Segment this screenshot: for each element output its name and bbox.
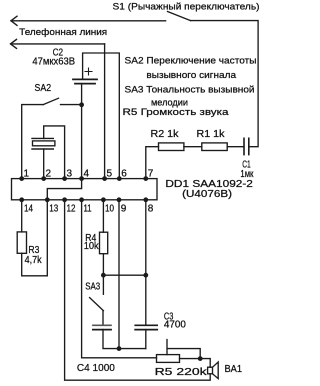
svg-text:6: 6 bbox=[121, 168, 127, 179]
svg-text:4700: 4700 bbox=[164, 319, 186, 330]
wire pin 9 rail down bbox=[118, 200, 120, 349]
svg-text:10k: 10k bbox=[84, 241, 100, 252]
wire SA2 left to pin 1 bbox=[22, 105, 44, 179]
switch S1 blade bbox=[168, 12, 191, 21]
wire R3 bottom to pin 13 bbox=[22, 253, 48, 275]
arrow line B bbox=[11, 39, 17, 48]
crystal ZQ1 plates bbox=[32, 138, 53, 149]
svg-text:9: 9 bbox=[121, 203, 127, 214]
svg-text:4,7k: 4,7k bbox=[25, 255, 43, 266]
wire pin 8 rail down to C3 bbox=[145, 200, 147, 325]
svg-text:SA2 Переключение частоты: SA2 Переключение частоты bbox=[125, 56, 257, 67]
wire C2 bottom to node and pin 4 bbox=[81, 84, 83, 179]
switch SA2 blade bbox=[43, 98, 58, 104]
svg-text:BA1: BA1 bbox=[225, 364, 243, 375]
wire R4 bottom to node bbox=[102, 254, 104, 276]
svg-text:SA3 Тональность вызывной: SA3 Тональность вызывной bbox=[125, 84, 255, 95]
wire SA3 bottom to C4 bbox=[102, 311, 104, 326]
capacitor C4 plates bbox=[93, 324, 111, 326]
svg-text:R2 1k: R2 1k bbox=[151, 129, 180, 140]
switch SA3 blade bbox=[90, 298, 104, 311]
svg-text:SA3: SA3 bbox=[85, 281, 100, 292]
svg-text:вызывного сигнала: вызывного сигнала bbox=[146, 70, 236, 81]
pin junction dots bottom row bbox=[19, 197, 148, 202]
svg-text:C4 1000: C4 1000 bbox=[77, 362, 115, 374]
svg-text:2: 2 bbox=[46, 168, 52, 179]
svg-text:S1 (Рычажный переключатель): S1 (Рычажный переключатель) bbox=[113, 2, 260, 13]
svg-text:1: 1 bbox=[24, 168, 30, 179]
wire pin 13 down bbox=[46, 200, 48, 276]
svg-text:11: 11 bbox=[84, 203, 92, 214]
node R5/BA1 bbox=[198, 356, 203, 361]
wiper of R5 bbox=[167, 340, 200, 359]
wire pin 14 to R3 bbox=[21, 200, 23, 232]
plus sign of C2 bbox=[85, 68, 92, 75]
wire node to pin 8 rail bbox=[103, 274, 145, 276]
wire telephone line B bbox=[11, 43, 105, 45]
wire pin 11 rail to R5 bbox=[82, 200, 157, 358]
wire pin 10 to R4 bbox=[102, 200, 104, 232]
node on pin 8 rail bbox=[143, 273, 148, 278]
svg-text:4: 4 bbox=[84, 168, 90, 179]
resistor R4 body bbox=[100, 232, 108, 254]
svg-text:3: 3 bbox=[67, 168, 73, 179]
node C2/SA2/pin4 bbox=[79, 102, 84, 107]
wire C3 bottom lead bbox=[145, 330, 147, 349]
wire C2 top to pin 6 bbox=[83, 53, 120, 179]
svg-text:(U4076B): (U4076B) bbox=[182, 189, 232, 200]
svg-text:R5 Громкость звука: R5 Громкость звука bbox=[123, 107, 230, 118]
resistor R3 body bbox=[17, 232, 26, 253]
wire telephone line A (top) bbox=[11, 20, 166, 22]
svg-text:5: 5 bbox=[107, 168, 113, 179]
svg-text:7: 7 bbox=[148, 168, 154, 179]
capacitor C1 plates bbox=[244, 138, 249, 154]
wire R2 to pin 7 bbox=[146, 147, 159, 179]
wire SA3 top lead bbox=[102, 275, 104, 294]
wire pin 12 rail and bottom bus bbox=[65, 200, 211, 380]
pin junction dots top row bbox=[19, 176, 148, 181]
svg-text:SA2: SA2 bbox=[35, 83, 52, 94]
resistor R2 body bbox=[159, 143, 184, 151]
svg-text:13: 13 bbox=[49, 203, 58, 214]
crystal ZQ1 body bbox=[33, 141, 55, 146]
svg-text:Телефонная линия: Телефонная линия bbox=[19, 27, 107, 38]
svg-text:47мкх63В: 47мкх63В bbox=[32, 56, 75, 67]
wire crystal bottom plate to pin 2 bbox=[43, 149, 45, 179]
svg-text:10: 10 bbox=[105, 203, 114, 214]
wire internal jog pin4 to pin13 bbox=[47, 179, 81, 200]
wire R5 right bbox=[180, 359, 211, 368]
capacitor C3 plates bbox=[135, 324, 157, 326]
wire C4 bottom to bus bbox=[103, 330, 146, 349]
node C4/pin9 bus bbox=[117, 346, 122, 351]
resistor R1 body bbox=[202, 143, 227, 151]
svg-text:14: 14 bbox=[24, 203, 33, 214]
wire S1 to right rail and down to C1 bbox=[191, 21, 259, 147]
svg-text:12: 12 bbox=[67, 203, 76, 214]
speaker BA1 bbox=[208, 367, 213, 374]
wire R1 to R2 bbox=[184, 146, 202, 148]
svg-text:8: 8 bbox=[148, 203, 154, 214]
capacitor C2 plates bbox=[73, 78, 97, 80]
resistor R5 body bbox=[157, 355, 180, 363]
wire line B down to pin 5 bbox=[104, 44, 106, 179]
svg-text:R1 1k: R1 1k bbox=[197, 129, 226, 140]
wire C1 left to R1 bbox=[227, 146, 244, 148]
svg-text:R5 220k: R5 220k bbox=[155, 366, 208, 378]
wire SA2 right contact to node bbox=[61, 104, 82, 106]
wire crystal top plate over to pin 3 bbox=[44, 126, 65, 179]
op IC DD1 body bbox=[12, 179, 158, 200]
node R4 bottom bbox=[101, 273, 106, 278]
arrow line A bbox=[11, 16, 17, 25]
